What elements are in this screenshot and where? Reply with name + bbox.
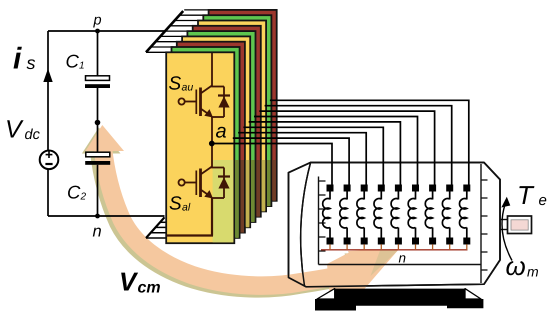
node a bbox=[209, 141, 215, 147]
svg-text:i: i bbox=[13, 43, 22, 76]
bus rung to card 1 bbox=[146, 51, 168, 53]
bus rung to card 4 bbox=[160, 35, 184, 37]
svg-text:V: V bbox=[5, 116, 24, 144]
wire phase 1 bbox=[212, 144, 332, 187]
neutral stub 7 bbox=[432, 244, 434, 250]
node p bbox=[95, 29, 100, 34]
diode triangle bbox=[218, 177, 229, 188]
arrow band widening wedge bbox=[327, 251, 365, 297]
IGBT bottom bar bbox=[211, 197, 224, 199]
svg-text:au: au bbox=[182, 82, 194, 94]
wire along card bottom to n ladder bbox=[167, 234, 214, 236]
IGBT gate terminal circle bbox=[179, 98, 185, 104]
shaft stubs bbox=[500, 219, 508, 221]
diode cathode bar bbox=[218, 94, 230, 96]
neutral stub 5 bbox=[397, 244, 399, 250]
svg-text:1: 1 bbox=[79, 61, 85, 72]
inverter card 3 bbox=[177, 42, 245, 233]
inverter card 1 bbox=[166, 52, 234, 243]
svg-text:a: a bbox=[216, 121, 227, 143]
neutral bus n (red) bbox=[321, 249, 468, 251]
capacitor C1 bbox=[86, 76, 110, 81]
neutral stub 2 bbox=[346, 244, 348, 250]
winding 8 bbox=[442, 191, 449, 239]
winding 4 bbox=[374, 191, 381, 239]
wire capacitor branch bottom bbox=[97, 165, 99, 216]
winding 6 bbox=[408, 191, 415, 239]
motor mounting base lower slab bbox=[315, 299, 483, 311]
wire phase 2 bbox=[233, 138, 349, 186]
motor mounting base upper slab bbox=[335, 289, 465, 299]
base right foot gap bbox=[465, 289, 481, 299]
rotation arrow omega_m bbox=[502, 205, 512, 261]
bus rung to card 7 bbox=[175, 20, 200, 22]
svg-text:n: n bbox=[399, 251, 407, 266]
winding 7 bbox=[425, 191, 432, 239]
wire card input from top bbox=[211, 53, 213, 87]
stator right comb bbox=[480, 164, 482, 283]
bus rung n 3 bbox=[151, 232, 167, 234]
IGBT gate bar bbox=[195, 171, 197, 196]
IGBT collector lead bbox=[201, 167, 213, 175]
bus rung to card 3 bbox=[156, 41, 179, 43]
IGBT channel bar bbox=[199, 169, 202, 198]
motor left end-cap curve bbox=[301, 163, 311, 286]
current arrow i_s bbox=[43, 69, 52, 83]
shading on card strips bbox=[235, 160, 239, 238]
IGBT channel bar bbox=[199, 88, 202, 117]
svg-text:s: s bbox=[27, 53, 36, 73]
svg-text:2: 2 bbox=[80, 192, 87, 203]
stator bottom line bbox=[319, 264, 482, 266]
wire upper IGBT to node a to lower IGBT bbox=[211, 117, 213, 168]
neutral stub 6 bbox=[415, 244, 417, 250]
base left foot gap bbox=[317, 289, 335, 299]
svg-text:S: S bbox=[169, 194, 182, 215]
wire phase 8 bbox=[265, 106, 452, 186]
winding 9 bbox=[459, 191, 466, 239]
IGBT bottom bar bbox=[211, 116, 224, 118]
IGBT top bar bbox=[211, 86, 224, 88]
winding 5 bbox=[391, 191, 398, 239]
IGBT collector lead bbox=[201, 86, 213, 94]
wire phase 5 bbox=[249, 122, 401, 186]
winding 1 bbox=[323, 191, 330, 239]
winding 2 bbox=[340, 191, 347, 239]
capacitor C2 bbox=[86, 152, 110, 157]
svg-text:e: e bbox=[539, 192, 547, 209]
shaft bbox=[508, 216, 532, 234]
wire phase 4 bbox=[243, 127, 383, 186]
motor casing outline bbox=[289, 163, 501, 287]
svg-text:ω: ω bbox=[506, 251, 526, 281]
IGBT gate lead bbox=[185, 101, 196, 103]
wire phase 3 bbox=[238, 133, 366, 186]
bus rung to card 6 bbox=[170, 25, 195, 27]
stator left comb bbox=[318, 177, 320, 265]
bus rung to card 2 bbox=[151, 46, 174, 48]
wire between C1 and C2 bbox=[97, 88, 99, 152]
inverter card 2 bbox=[172, 47, 240, 238]
IGBT gate lead bbox=[185, 182, 196, 184]
inverter card 6 bbox=[193, 26, 261, 217]
wire capacitor branch top bbox=[97, 31, 99, 76]
svg-text:V: V bbox=[119, 267, 139, 297]
wire bottom bus n bbox=[48, 215, 165, 217]
wire left branch lower bbox=[47, 169, 49, 216]
neutral stub 1 bbox=[329, 244, 331, 250]
arrow head up (at capacitor midpoint) bbox=[85, 125, 124, 151]
IGBT emitter lead with arrow bbox=[201, 109, 211, 116]
bus rung n 2 bbox=[156, 226, 167, 228]
svg-text:m: m bbox=[527, 264, 539, 280]
node n bbox=[95, 214, 100, 219]
diode branch wire bbox=[223, 168, 225, 199]
svg-text:n: n bbox=[93, 223, 102, 241]
bus rung to card 9 bbox=[184, 9, 210, 11]
IGBT gate terminal circle bbox=[179, 179, 185, 185]
bus rung to card 8 bbox=[179, 14, 205, 16]
svg-text:al: al bbox=[182, 202, 191, 214]
winding 3 bbox=[357, 191, 364, 239]
neutral stub 3 bbox=[363, 244, 365, 250]
arrow v_cm curved band bbox=[103, 149, 362, 286]
motor casing outline restroke bbox=[289, 163, 501, 287]
svg-text:S: S bbox=[169, 74, 182, 95]
arrow head right (at motor neutral) bbox=[348, 249, 399, 290]
IGBT emitter lead with arrow bbox=[201, 190, 211, 197]
IGBT gate bar bbox=[195, 90, 197, 115]
inverter card 4 bbox=[182, 36, 250, 227]
bus ladder p-side bbox=[146, 10, 209, 52]
wire phase 6 bbox=[254, 117, 418, 187]
diode triangle bbox=[218, 96, 229, 107]
svg-text:C: C bbox=[67, 182, 81, 203]
inverter card 8 bbox=[203, 15, 271, 206]
diode cathode bar bbox=[218, 175, 230, 177]
svg-text:cm: cm bbox=[138, 280, 161, 297]
svg-text:dc: dc bbox=[25, 127, 41, 143]
wire phase 7 bbox=[259, 111, 434, 186]
bus rung n 1 bbox=[160, 221, 167, 223]
svg-text:p: p bbox=[93, 13, 102, 29]
inverter card 9 bbox=[209, 10, 277, 201]
wire top bus p bbox=[48, 30, 168, 32]
inverter card 5 bbox=[187, 31, 255, 222]
diode branch wire bbox=[223, 87, 225, 118]
neutral stub 8 bbox=[449, 244, 451, 250]
wire phase 9 bbox=[270, 100, 469, 186]
inverter card 7 bbox=[198, 21, 266, 212]
wire left branch upper bbox=[47, 31, 49, 151]
svg-text:C: C bbox=[66, 51, 80, 72]
IGBT top bar bbox=[211, 167, 224, 169]
wire lower IGBT output down bbox=[211, 198, 213, 236]
node midpoint junction bbox=[95, 120, 101, 126]
neutral stub 4 bbox=[380, 244, 382, 250]
bus ladder n-side bbox=[146, 217, 167, 238]
arrow shadow bbox=[82, 128, 396, 293]
bus rung to card 5 bbox=[165, 30, 189, 32]
source V_dc bbox=[40, 151, 59, 170]
svg-text:T: T bbox=[517, 180, 535, 210]
neutral stub 9 bbox=[466, 244, 468, 250]
